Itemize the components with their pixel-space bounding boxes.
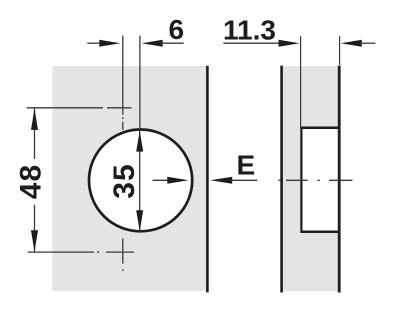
top screw reference line bbox=[27, 107, 132, 109]
side view left edge bbox=[280, 66, 283, 293]
panel front view fill bbox=[52, 66, 206, 291]
svg-text:11.3: 11.3 bbox=[223, 15, 276, 46]
dimension 35 arrow down bbox=[136, 210, 143, 231]
dimension 11.3 left arrow bbox=[223, 42, 281, 44]
dimension 35 arrow up bbox=[136, 131, 143, 152]
notch top line bbox=[300, 126, 339, 129]
svg-text:6: 6 bbox=[169, 14, 185, 45]
dimension 6 left arrow bbox=[87, 42, 103, 44]
dimension 11.3 right extension line bbox=[339, 36, 341, 65]
notch left wall bbox=[300, 128, 302, 232]
E arrow bbox=[210, 177, 232, 184]
dimension 48 arrow up bbox=[31, 108, 38, 129]
dimension 35 line bbox=[139, 131, 141, 232]
dimension 48 line bbox=[34, 108, 36, 251]
horizontal centerline to side view bbox=[278, 179, 352, 181]
panel front right edge bbox=[206, 66, 209, 293]
dimension 11.3 left extension line bbox=[300, 36, 302, 128]
svg-text:E: E bbox=[236, 150, 255, 181]
side view panel fill bbox=[283, 66, 339, 291]
screw centerline vertical bbox=[122, 36, 124, 271]
notch bottom line bbox=[300, 231, 339, 234]
side view right edge bbox=[338, 66, 341, 293]
dimension 11.3 right arrow bbox=[341, 40, 362, 47]
svg-text:48: 48 bbox=[15, 164, 48, 199]
side view drill notch bbox=[302, 128, 338, 231]
cup hole circle D35 bbox=[89, 130, 192, 232]
inner arrow to cup edge bbox=[153, 179, 173, 181]
svg-text:35: 35 bbox=[108, 163, 141, 198]
dimension 48 arrow down bbox=[31, 230, 38, 252]
bottom screw reference line bbox=[28, 251, 134, 253]
dimension 6 right extension line bbox=[139, 36, 141, 129]
dimension 6 right arrow bbox=[142, 40, 163, 47]
